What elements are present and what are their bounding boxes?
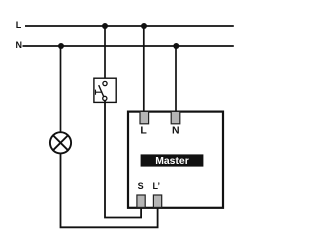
- svg-text:S: S: [138, 181, 144, 191]
- wire switch to master terminal S: [105, 101, 141, 218]
- terminal L' of master: [153, 195, 161, 207]
- terminal L of master: [140, 111, 149, 123]
- junction node on N at master drop: [173, 43, 179, 49]
- wire N bus: [23, 45, 234, 47]
- svg-text:L: L: [16, 20, 22, 30]
- switch S1 bottom contact: [103, 96, 107, 100]
- wire L bus to master terminal L: [143, 26, 145, 113]
- junction node on L at master drop: [141, 23, 147, 29]
- terminal S of master: [137, 195, 145, 207]
- switch S1 actuator: [95, 90, 102, 95]
- junction node on L at switch drop: [102, 23, 108, 29]
- wire lamp to master terminal L': [61, 153, 158, 227]
- wire L bus: [25, 25, 234, 27]
- junction node on N at lamp drop: [58, 43, 64, 49]
- wire N bus to master terminal N: [175, 46, 177, 113]
- switch S1 top contact: [103, 81, 107, 85]
- svg-text:L: L: [140, 125, 147, 137]
- terminal N of master: [171, 111, 180, 123]
- Master nameplate: [141, 154, 204, 166]
- switch S1 enclosure: [94, 78, 116, 102]
- svg-text:N: N: [172, 125, 180, 137]
- wire N bus to lamp: [60, 46, 62, 132]
- lamp E1 cross: [53, 136, 68, 151]
- svg-text:N: N: [15, 40, 22, 50]
- svg-text:Master: Master: [155, 156, 189, 167]
- switch S1 lever: [99, 85, 104, 97]
- svg-text:L’: L’: [153, 181, 161, 191]
- lamp E1: [50, 132, 71, 153]
- wire L bus to switch: [104, 26, 106, 82]
- master unit U1 enclosure: [128, 112, 223, 208]
